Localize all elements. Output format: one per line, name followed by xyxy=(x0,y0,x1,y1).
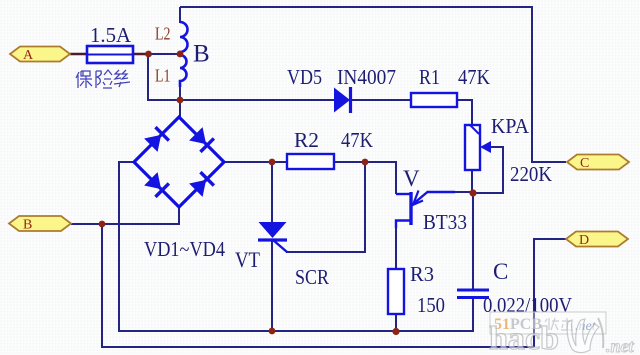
wire rectified output to diode VD5 xyxy=(180,99,335,101)
svg-text:R1: R1 xyxy=(419,65,440,89)
capacitor C 0.022/100V xyxy=(457,290,489,298)
svg-text:IN4007: IN4007 xyxy=(337,65,396,89)
wire VD5 to R1 xyxy=(351,99,411,101)
svg-text:47K: 47K xyxy=(458,65,490,89)
svg-text:150: 150 xyxy=(417,293,445,317)
svg-text:220K: 220K xyxy=(510,162,552,186)
wire from port A to fuse xyxy=(70,53,87,55)
label VD1~VD4 xyxy=(144,237,225,261)
label L2 xyxy=(155,24,171,44)
label 47K (R1) xyxy=(458,65,490,89)
svg-text:.net: .net xyxy=(606,336,635,355)
wire capacitor bottom lead xyxy=(472,298,474,332)
bridge diode lower-right xyxy=(189,172,214,197)
bridge diode upper-right xyxy=(189,127,214,152)
wire transistor base1 to R3 xyxy=(395,227,397,269)
wire fuse to junction xyxy=(133,53,150,55)
wire inductor spine upper xyxy=(179,7,181,23)
label fuse chinese 保险丝 xyxy=(76,70,130,88)
label B xyxy=(193,41,210,68)
label R3 xyxy=(410,262,434,286)
label L1 xyxy=(155,66,171,86)
wire L1 bypass xyxy=(148,54,178,100)
svg-text:KPA: KPA xyxy=(491,114,530,138)
bridge diode upper-left xyxy=(144,127,169,152)
svg-text:C: C xyxy=(493,259,508,284)
svg-text:V: V xyxy=(403,166,420,191)
label C xyxy=(493,259,508,284)
svg-text:C: C xyxy=(580,156,589,171)
junction dot node E xyxy=(469,189,476,196)
port C xyxy=(567,155,629,172)
svg-text:BT33: BT33 xyxy=(423,210,467,234)
label BT33 xyxy=(423,210,467,234)
svg-text:A: A xyxy=(23,48,34,63)
label KPA xyxy=(491,114,530,138)
label R1 xyxy=(419,65,440,89)
wire SCR anode xyxy=(271,162,273,223)
inductor B (L2 upper, L1 lower) xyxy=(180,22,188,87)
port B xyxy=(9,216,71,233)
label VT xyxy=(235,247,260,272)
svg-text:47K: 47K xyxy=(341,128,373,152)
label 150 xyxy=(417,293,445,317)
wire potentiometer bottom to node E xyxy=(471,170,473,193)
label 220K xyxy=(510,162,552,186)
resistor R2 xyxy=(287,154,334,169)
fuse F1 1.5A xyxy=(87,46,133,63)
svg-text:B: B xyxy=(23,218,32,233)
label SCR xyxy=(295,265,329,289)
wire emitter to node E xyxy=(452,191,473,193)
label R2 xyxy=(294,128,319,152)
wire R3 bottom to lower rail xyxy=(395,314,397,332)
resistor R1 xyxy=(411,93,457,107)
junction dot gate node xyxy=(362,159,369,166)
svg-text:R2: R2 xyxy=(294,128,319,152)
transistor V BT33 xyxy=(396,191,455,229)
wire R2 right to transistor base2 xyxy=(334,162,396,194)
label 47K (R2) xyxy=(341,128,373,152)
port A xyxy=(10,47,70,64)
label VD5 xyxy=(287,65,322,89)
bridge diode lower-left xyxy=(144,172,169,197)
bridge rectifier VD1~VD4 diamond xyxy=(134,117,224,207)
svg-text:SCR: SCR xyxy=(295,265,329,289)
wire junction to inductor tap xyxy=(148,53,178,55)
watermark xyxy=(489,312,635,355)
wire wiper return xyxy=(473,147,503,193)
svg-text:VD1~VD4: VD1~VD4 xyxy=(144,237,225,261)
junction dot fuse node xyxy=(145,51,152,58)
svg-text:1.5A: 1.5A xyxy=(90,23,132,47)
wire bridge right to R2 xyxy=(224,161,287,163)
wire bridge left to lower rail xyxy=(119,162,473,331)
resistor R3 xyxy=(388,269,404,314)
junction dot SCR anode node xyxy=(269,159,276,166)
wire R1 to potentiometer top xyxy=(457,100,472,125)
svg-text:B: B xyxy=(193,41,210,68)
svg-text:L1: L1 xyxy=(155,66,171,86)
potentiometer KPA 220K xyxy=(465,125,491,170)
label V xyxy=(403,166,420,191)
wire SCR gate to R2 right node xyxy=(286,162,365,252)
svg-text:VT: VT xyxy=(235,247,260,272)
svg-text:hacb: hacb xyxy=(489,321,559,355)
svg-text:L2: L2 xyxy=(155,24,171,44)
wire port B to bridge bottom xyxy=(71,206,179,224)
thyristor VT (SCR) xyxy=(258,222,287,252)
wire top rail from inductor top to right side down to port C xyxy=(180,7,566,162)
junction dot SCR cathode on rail xyxy=(269,328,276,335)
wire SCR cathode xyxy=(271,241,273,331)
wire port B down to bottom rail xyxy=(102,224,534,347)
svg-text:VD5: VD5 xyxy=(287,65,322,89)
svg-text:D: D xyxy=(579,233,589,248)
junction dot inductor bottom xyxy=(177,97,184,104)
wire inductor bottom to bridge top xyxy=(179,86,181,118)
port D xyxy=(566,232,628,249)
junction dot B node xyxy=(99,221,106,228)
wire port D to bottom rail xyxy=(534,239,566,347)
label IN4007 xyxy=(337,65,396,89)
wire node E to capacitor top xyxy=(472,193,474,289)
junction dot R3 bottom xyxy=(392,328,399,335)
label 1.5A xyxy=(90,23,132,47)
svg-text:R3: R3 xyxy=(410,262,434,286)
diode VD5 xyxy=(334,87,351,113)
label 0.022/100V xyxy=(483,293,572,317)
junction dot inductor tap xyxy=(177,51,184,58)
